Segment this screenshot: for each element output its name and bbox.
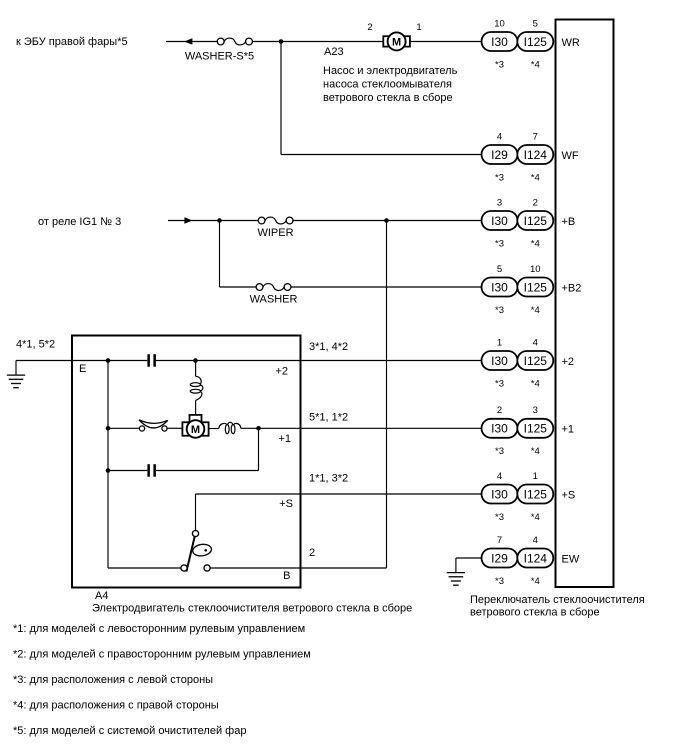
svg-text:+S: +S	[279, 498, 293, 510]
svg-text:I124: I124	[524, 148, 548, 162]
svg-text:4: 4	[497, 131, 502, 142]
wire: +S down to cam switch	[195, 494, 197, 531]
svg-text:2: 2	[497, 405, 502, 416]
circuit breaker (bimetal strip)	[139, 420, 168, 431]
svg-text:ветрового стекла в сборе: ветрового стекла в сборе	[470, 607, 600, 619]
connector I125 pin 2 (+B)	[517, 197, 553, 249]
wire: lower capacitor row	[108, 470, 147, 472]
svg-text:*4: *4	[531, 512, 540, 523]
svg-text:+2: +2	[275, 366, 288, 378]
capacitor (upper noise suppressor)	[147, 354, 156, 367]
wire: EW to ground	[456, 557, 482, 559]
svg-text:насоса стеклоомывателя: насоса стеклоомывателя	[323, 79, 452, 91]
wire: stem to coil	[195, 361, 197, 377]
svg-text:Переключатель стеклоочистителя: Переключатель стеклоочистителя	[470, 594, 645, 606]
svg-text:7: 7	[533, 131, 538, 142]
svg-text:+B2: +B2	[562, 282, 582, 294]
node: +1 junction	[256, 426, 261, 431]
fuse WASHER-S*5	[185, 38, 254, 62]
svg-text:+2: +2	[562, 356, 575, 368]
motor A23 (washer pump)	[383, 32, 410, 50]
svg-text:1*1, 3*2: 1*1, 3*2	[309, 473, 348, 485]
inductor (field coil, vertical)	[190, 376, 203, 400]
svg-text:I125: I125	[524, 487, 548, 501]
wire: breaker to motor	[167, 427, 182, 429]
connector I30 pin 5 (+B2)	[482, 264, 518, 316]
connector I30 pin 1 (+2)	[482, 337, 518, 389]
svg-text:I125: I125	[524, 354, 548, 368]
svg-text:4: 4	[497, 471, 502, 482]
svg-text:1: 1	[416, 22, 421, 33]
svg-text:WR: WR	[562, 37, 580, 49]
svg-text:I29: I29	[491, 551, 508, 565]
svg-text:2: 2	[533, 197, 538, 208]
caption: washer pump assembly	[323, 65, 458, 104]
svg-text:1: 1	[533, 471, 538, 482]
svg-text:1: 1	[497, 337, 502, 348]
svg-text:*1: для моделей с левосторонни: *1: для моделей с левосторонним рулевым …	[13, 623, 305, 635]
wire	[410, 41, 482, 43]
arrow to headlamp washer ECU (points left)	[184, 38, 192, 45]
node: +2 junction above field coil	[193, 358, 198, 363]
svg-text:*3: *3	[495, 172, 504, 183]
svg-text:7: 7	[497, 535, 502, 546]
wire: left rail to switch contact	[108, 567, 181, 569]
svg-text:5: 5	[533, 18, 538, 29]
wire: +B2 row left	[220, 286, 257, 288]
svg-text:*3: *3	[495, 305, 504, 316]
svg-text:WF: WF	[562, 150, 579, 162]
cam switch (park switch)	[181, 530, 212, 571]
connector I125 pin 5 (WR)	[517, 18, 553, 70]
capacitor (lower noise suppressor)	[147, 464, 156, 477]
connector I124 pin 4 (EW)	[517, 535, 553, 587]
wire: +1 row to connector	[241, 427, 482, 429]
connector I124 pin 7 (WF)	[517, 131, 553, 183]
svg-text:*3: *3	[495, 238, 504, 249]
svg-text:3*1, 4*2: 3*1, 4*2	[309, 341, 348, 353]
arrow from IG1 relay (points right)	[184, 217, 192, 224]
node: lower cap junction on left rail	[106, 468, 111, 473]
svg-text:*4: *4	[531, 59, 540, 70]
svg-text:4: 4	[533, 535, 538, 546]
wire: E row into box	[16, 360, 147, 362]
svg-text:I30: I30	[491, 280, 508, 294]
connector I30 pin 4 (+S)	[482, 471, 518, 523]
svg-text:*3: *3	[495, 512, 504, 523]
svg-text:I30: I30	[491, 487, 508, 501]
wire	[156, 470, 259, 472]
wire: junction down to WF row	[280, 42, 282, 155]
svg-text:4*1, 5*2: 4*1, 5*2	[16, 339, 55, 351]
svg-text:M: M	[191, 424, 200, 436]
wire: vertical from +B to motor B terminal wire	[386, 221, 388, 569]
svg-text:*4: *4	[531, 446, 540, 457]
wire: B row to vertical rail	[210, 567, 386, 569]
svg-text:+S: +S	[562, 489, 576, 501]
svg-text:I30: I30	[491, 214, 508, 228]
connector I29 pin 4 (WF)	[482, 131, 518, 183]
svg-text:B: B	[283, 570, 290, 582]
connector I125 pin 1 (+S)	[517, 471, 553, 523]
svg-text:*3: *3	[495, 378, 504, 389]
wire: +B2 row right	[291, 286, 482, 288]
fuse WASHER	[250, 284, 298, 306]
wire: left rail vertical	[107, 361, 109, 569]
svg-text:*5: для моделей с системой очи: *5: для моделей с системой очистителей ф…	[13, 725, 246, 737]
svg-text:5: 5	[497, 264, 502, 275]
wire: +2 row to connector	[156, 360, 482, 362]
wire	[252, 41, 383, 43]
svg-text:*3: для расположения с левой с: *3: для расположения с левой стороны	[13, 674, 213, 686]
svg-text:от реле IG1 № 3: от реле IG1 № 3	[38, 216, 121, 228]
wiper switch body	[556, 20, 614, 588]
svg-text:*4: для расположения с правой: *4: для расположения с правой стороны	[13, 700, 219, 712]
svg-text:E: E	[79, 363, 86, 375]
wire: +B row right of fuse	[293, 220, 482, 222]
wire: left rail to breaker	[108, 427, 140, 429]
svg-text:WASHER: WASHER	[250, 294, 298, 306]
svg-text:10: 10	[494, 18, 505, 29]
wire: coil to motor	[195, 400, 197, 414]
svg-text:Электродвигатель стеклоочистит: Электродвигатель стеклоочистителя ветров…	[92, 603, 412, 615]
svg-text:I29: I29	[491, 148, 508, 162]
node: E junction left rail	[106, 358, 111, 363]
connector I30 pin 2 (+1)	[482, 405, 518, 457]
wire: WF row	[281, 154, 482, 156]
wire: feed to right headlamp washer ECU	[166, 41, 217, 43]
svg-text:A4: A4	[95, 590, 108, 602]
svg-text:к ЭБУ правой фары*5: к ЭБУ правой фары*5	[16, 36, 128, 48]
svg-text:EW: EW	[562, 553, 580, 565]
caption: wiper switch assembly	[470, 594, 645, 619]
svg-text:M: M	[392, 36, 401, 48]
svg-text:WIPER: WIPER	[257, 227, 293, 239]
connector I125 pin 3 (+1)	[517, 405, 553, 457]
svg-text:2: 2	[309, 547, 315, 559]
svg-text:*2: для моделей с правосторонн: *2: для моделей с правосторонним рулевым…	[13, 649, 311, 661]
svg-text:4: 4	[533, 337, 538, 348]
node: +1 row on left rail	[106, 426, 111, 431]
fuse WIPER	[257, 217, 293, 239]
svg-text:*3: *3	[495, 576, 504, 587]
connector I125 pin 4 (+2)	[517, 337, 553, 389]
connector I29 pin 7 (EW)	[482, 535, 518, 587]
svg-text:I125: I125	[524, 422, 548, 436]
svg-text:2: 2	[367, 22, 372, 33]
svg-text:*3: *3	[495, 446, 504, 457]
svg-text:WASHER-S*5: WASHER-S*5	[185, 51, 254, 63]
svg-text:+B: +B	[562, 216, 576, 228]
wire: +S row to connector	[196, 493, 482, 495]
svg-text:I125: I125	[524, 280, 548, 294]
node: +B branch to motor B terminal	[384, 218, 389, 223]
svg-text:+1: +1	[562, 424, 575, 436]
svg-text:10: 10	[530, 264, 541, 275]
wire: +1 junction down	[258, 428, 260, 470]
svg-text:I125: I125	[524, 35, 548, 49]
svg-text:*4: *4	[531, 172, 540, 183]
motor M (wiper motor, A4)	[182, 415, 208, 438]
svg-text:3: 3	[497, 197, 502, 208]
svg-text:I30: I30	[491, 35, 508, 49]
svg-text:ветрового стекла в сборе: ветрового стекла в сборе	[323, 92, 453, 104]
connector I30 pin 10 (WR)	[482, 18, 518, 70]
ground (E terminal)	[7, 361, 25, 388]
svg-text:5*1, 1*2: 5*1, 1*2	[309, 412, 348, 424]
svg-text:I30: I30	[491, 422, 508, 436]
box A4: windshield wiper motor assembly	[72, 336, 301, 588]
node: +B branch to WASHER fuse	[217, 218, 222, 223]
svg-text:I124: I124	[524, 551, 548, 565]
svg-text:Насос и электродвигатель: Насос и электродвигатель	[323, 65, 458, 77]
svg-text:I125: I125	[524, 214, 548, 228]
wire: down to WASHER fuse row	[219, 221, 221, 288]
connector I30 pin 3 (+B)	[482, 197, 518, 249]
inductor (choke, horizontal)	[219, 422, 241, 433]
node: junction washer pump pin2	[279, 39, 284, 44]
svg-text:*4: *4	[531, 238, 540, 249]
svg-text:*4: *4	[531, 378, 540, 389]
svg-text:I30: I30	[491, 354, 508, 368]
wire: motor to choke coil	[209, 428, 219, 430]
svg-text:3: 3	[533, 405, 538, 416]
svg-text:*4: *4	[531, 305, 540, 316]
svg-text:*3: *3	[495, 59, 504, 70]
svg-text:+1: +1	[278, 433, 291, 445]
ground (EW terminal)	[447, 558, 465, 585]
svg-text:*4: *4	[531, 576, 540, 587]
connector I125 pin 10 (+B2)	[517, 264, 553, 316]
svg-text:A23: A23	[324, 46, 344, 58]
wire: from IG1 relay (+B row)	[168, 220, 258, 222]
